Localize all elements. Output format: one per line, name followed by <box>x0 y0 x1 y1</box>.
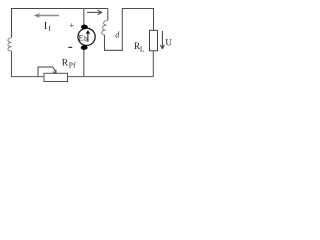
svg-text:E: E <box>79 32 84 42</box>
svg-text:+: + <box>69 20 74 30</box>
svg-text:L: L <box>140 44 145 53</box>
svg-text:U: U <box>165 38 172 48</box>
svg-text:R: R <box>62 59 69 69</box>
svg-text:Pf: Pf <box>69 60 76 69</box>
svg-text:I: I <box>44 21 47 32</box>
